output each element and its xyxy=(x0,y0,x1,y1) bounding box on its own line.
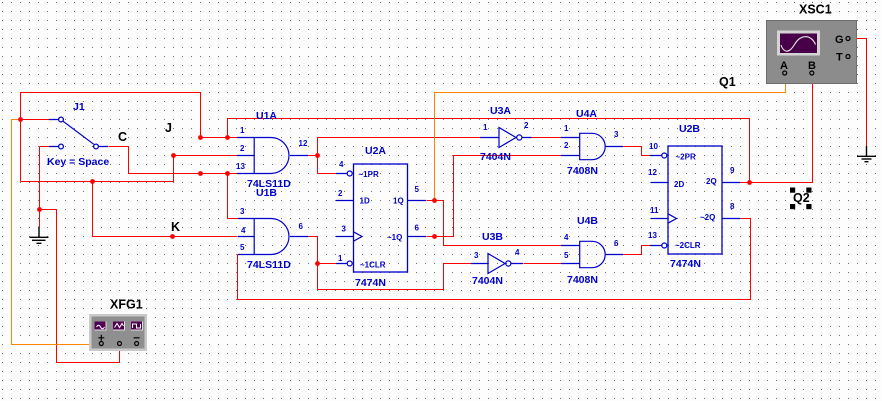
svg-text:13: 13 xyxy=(236,162,245,171)
pin numbers U3A xyxy=(483,121,529,132)
switch J1 xyxy=(49,117,108,149)
wire U4B out to U2B ~2CLR xyxy=(624,246,651,255)
svg-text:U2B: U2B xyxy=(679,123,700,135)
svg-text:7474N: 7474N xyxy=(355,277,386,289)
svg-text:~2PR: ~2PR xyxy=(676,153,696,162)
wire U1B out to U2A ~1CLR node xyxy=(309,237,337,264)
junction node U1A output xyxy=(315,153,320,158)
svg-text:~2CLR: ~2CLR xyxy=(675,241,701,250)
svg-text:~1CLR: ~1CLR xyxy=(360,261,386,270)
wire 1Q stub join xyxy=(427,200,435,202)
wire orange XFG1 plus to J1 node xyxy=(12,120,98,345)
wire U1A out to U2A ~1PR xyxy=(318,173,337,175)
svg-text:7408N: 7408N xyxy=(567,165,598,177)
wire U3B out to U4B pin5 xyxy=(524,263,562,265)
svg-text:B: B xyxy=(808,60,816,72)
svg-text:4: 4 xyxy=(515,248,520,257)
wire net-K branch to U1B pin4 xyxy=(93,182,238,237)
wire J1 pin2 lead to ground node xyxy=(40,147,50,227)
svg-text:10: 10 xyxy=(649,142,658,151)
svg-text:6: 6 xyxy=(415,224,420,233)
svg-text:U1B: U1B xyxy=(256,187,277,199)
junction node pin1 line a xyxy=(198,135,203,140)
wire net-J top loop (J1 to U1A pin1 column) xyxy=(21,93,201,182)
wire ~1Q to U4A pin2 xyxy=(427,156,562,237)
svg-text:12: 12 xyxy=(299,139,308,148)
svg-text:1: 1 xyxy=(564,124,569,133)
junction node ~1CLR xyxy=(315,261,320,266)
pin numbers U4B xyxy=(564,233,619,260)
pin numbers U2A xyxy=(338,160,420,263)
svg-text:J: J xyxy=(165,121,172,135)
svg-text:13: 13 xyxy=(648,231,657,240)
pin numbers U1B xyxy=(240,207,304,252)
wire U1B pin5 to U2B ~2Q xyxy=(238,219,751,300)
pin numbers U1A xyxy=(236,126,308,171)
svg-text:2: 2 xyxy=(564,141,569,150)
junction node K line xyxy=(170,234,175,239)
svg-text:XSC1: XSC1 xyxy=(799,3,832,17)
svg-text:U2A: U2A xyxy=(365,145,386,157)
junction node 2Q xyxy=(747,180,752,185)
svg-text:74LS11D: 74LS11D xyxy=(247,259,291,271)
svg-text:U3A: U3A xyxy=(490,105,511,117)
ground left xyxy=(30,227,49,244)
svg-text:U4B: U4B xyxy=(577,215,598,227)
svg-text:2: 2 xyxy=(338,189,343,198)
wire ~1CLR node to U3B pin3 xyxy=(318,264,472,290)
svg-text:Q1: Q1 xyxy=(719,75,736,89)
port labels U2B xyxy=(674,153,717,251)
svg-text:C: C xyxy=(118,130,127,144)
svg-text:K: K xyxy=(171,220,180,234)
svg-text:4: 4 xyxy=(241,226,246,235)
svg-text:7408N: 7408N xyxy=(567,274,598,286)
wire U1A pin1 segment xyxy=(201,137,238,139)
wire 2Q to scope B xyxy=(741,76,813,183)
svg-text:U1A: U1A xyxy=(256,110,277,122)
pin numbers U4A xyxy=(564,124,619,150)
wire U1A output pin12 junction xyxy=(309,138,318,174)
svg-text:G: G xyxy=(835,34,844,46)
svg-text:7474N: 7474N xyxy=(670,258,701,270)
junction node 1Q xyxy=(432,198,437,203)
svg-text:1: 1 xyxy=(338,254,343,263)
svg-text:3: 3 xyxy=(614,130,619,139)
junction node C line b xyxy=(225,171,230,176)
svg-text:5: 5 xyxy=(564,251,569,260)
port labels U2A xyxy=(359,170,404,270)
svg-text:6: 6 xyxy=(299,222,304,231)
svg-text:5: 5 xyxy=(415,185,420,194)
and-gate U1A 74LS11D xyxy=(237,138,308,174)
svg-text:A: A xyxy=(780,60,788,72)
svg-text:2Q: 2Q xyxy=(706,177,717,186)
flip-flop U2B 7474N xyxy=(650,146,740,254)
svg-text:8: 8 xyxy=(730,202,735,211)
svg-text:4: 4 xyxy=(564,233,569,242)
wire scope G to ground xyxy=(851,39,867,147)
function generator XFG1 xyxy=(89,314,147,351)
wire net-C branch to U1B pin3 xyxy=(228,174,239,219)
junction node J1 pin1 / orange feed xyxy=(18,117,23,122)
junction node ~1Q xyxy=(432,234,437,239)
svg-text:7404N: 7404N xyxy=(472,275,503,287)
wire orange net-Q1 scope A to 1Q xyxy=(435,76,786,201)
inverter U3A 7404N xyxy=(480,128,532,148)
svg-text:3: 3 xyxy=(474,251,479,260)
svg-text:~1PR: ~1PR xyxy=(359,170,379,179)
svg-text:U3B: U3B xyxy=(482,231,503,243)
pin numbers U2B xyxy=(648,142,735,240)
ground right (scope) xyxy=(857,146,876,162)
svg-text:2: 2 xyxy=(240,144,245,153)
flip-flop U2A 7474N xyxy=(336,164,426,272)
Q2 label selection handles xyxy=(790,188,812,210)
svg-text:7404N: 7404N xyxy=(480,151,511,163)
wire 1Q to U4B pin4 xyxy=(435,201,562,246)
svg-text:U4A: U4A xyxy=(576,108,597,120)
svg-text:2: 2 xyxy=(524,121,529,130)
svg-text:1D: 1D xyxy=(360,197,370,206)
svg-text:1: 1 xyxy=(483,123,488,132)
junction node pin1 line b xyxy=(225,135,230,140)
svg-text:Q2: Q2 xyxy=(793,191,810,205)
junction node J to U1A pin2 xyxy=(171,153,176,158)
svg-text:11: 11 xyxy=(650,206,659,215)
svg-text:T: T xyxy=(836,52,843,64)
svg-text:J1: J1 xyxy=(73,101,85,113)
wire U3A out to U4A pin1 xyxy=(532,137,562,139)
svg-text:6: 6 xyxy=(614,239,619,248)
svg-text:Key = Space: Key = Space xyxy=(47,156,109,168)
and-gate U4A 7408N xyxy=(561,133,623,159)
svg-text:~1Q: ~1Q xyxy=(387,233,402,242)
svg-text:1Q: 1Q xyxy=(393,197,404,206)
and-gate U1B 74LS11D xyxy=(238,219,308,255)
svg-text:~2Q: ~2Q xyxy=(700,213,715,222)
wire U1A out to U3A pin1 xyxy=(318,137,481,139)
inverter U3B 7404N xyxy=(471,254,523,274)
svg-text:3: 3 xyxy=(342,225,347,234)
svg-text:5: 5 xyxy=(240,243,245,252)
and-gate U4B 7408N xyxy=(561,241,623,267)
junction node ground net xyxy=(37,207,42,212)
svg-text:12: 12 xyxy=(648,168,657,177)
svg-text:1: 1 xyxy=(240,126,245,135)
wire U4A out to U2B ~2PR xyxy=(624,147,651,156)
svg-text:3: 3 xyxy=(240,207,245,216)
wire net-C from switch to U1A pin13 xyxy=(109,147,238,174)
junction node C line a xyxy=(198,171,203,176)
oscilloscope XSC1 xyxy=(767,21,857,84)
svg-text:4: 4 xyxy=(339,160,344,169)
pin numbers U3B xyxy=(474,248,520,260)
wire net-J to U1A pin2 xyxy=(21,156,238,182)
svg-text:9: 9 xyxy=(730,166,735,175)
svg-text:XFG1: XFG1 xyxy=(110,298,143,312)
wire ground node to XFG1 common xyxy=(40,210,120,363)
wire J1 pin1 lead xyxy=(21,119,50,121)
svg-text:2D: 2D xyxy=(674,180,684,189)
wire 2Q feedback to U1A pin1 xyxy=(228,119,750,183)
junction node K branch xyxy=(90,179,95,184)
